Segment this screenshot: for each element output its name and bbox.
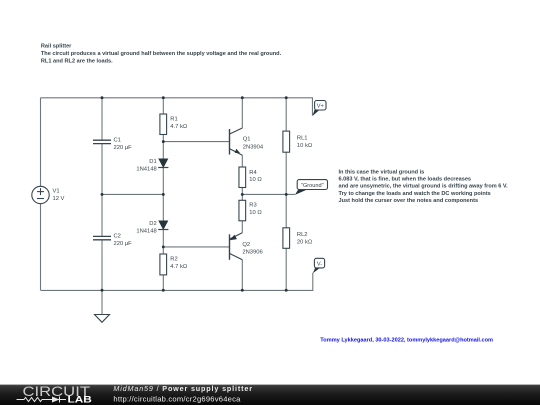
- footer logo zigzag and diode: [17, 397, 67, 403]
- wire left rail lower (V1 bottom lead): [40, 204, 42, 291]
- svg-text:20 kΩ: 20 kΩ: [297, 239, 313, 245]
- svg-text:The circuit produces a virtual: The circuit produces a virtual ground ha…: [41, 51, 282, 57]
- wire RL2 bottom lead: [285, 248, 287, 290]
- svg-text:10 Ω: 10 Ω: [249, 177, 262, 183]
- label R2 value: [170, 256, 188, 270]
- svg-text:Q2: Q2: [242, 242, 250, 248]
- wire to Ground flag: [242, 193, 295, 195]
- wire Q1 base: [163, 141, 229, 143]
- wire left rail upper (V1 top lead): [40, 98, 42, 187]
- note: title text block top-left: [41, 44, 282, 65]
- wire C branch bottom: [101, 240, 103, 290]
- wire top rail to V+: [41, 98, 313, 116]
- label R3 value: [249, 203, 262, 217]
- label R4 value: [249, 170, 262, 183]
- svg-text:220 µF: 220 µF: [114, 241, 133, 247]
- svg-text:Try to change the loads and wa: Try to change the loads and watch the DC…: [339, 191, 491, 197]
- wire R4 to R3: [241, 188, 243, 201]
- label D2 value: [136, 221, 156, 235]
- wire R1 top lead: [162, 98, 164, 114]
- wire RL1 to RL2: [285, 152, 287, 228]
- svg-text:12 V: 12 V: [53, 196, 65, 202]
- wire Q1 collector: [241, 98, 243, 128]
- svg-text:6.083 V, that is fine, but whe: 6.083 V, that is fine, but when the load…: [339, 177, 472, 183]
- svg-text:Just hold the curser over the: Just hold the curser over the notes and …: [339, 198, 479, 204]
- svg-text:4.7 kΩ: 4.7 kΩ: [170, 264, 188, 270]
- wire R1 to D1: [162, 135, 164, 159]
- svg-text:1N4148: 1N4148: [136, 228, 156, 234]
- wire R2 bottom lead: [162, 275, 164, 290]
- svg-text:D2: D2: [149, 221, 156, 227]
- svg-text:V1: V1: [53, 189, 60, 195]
- capacitor C1: [93, 140, 111, 143]
- label RL1 value: [297, 135, 313, 149]
- svg-text:V-: V-: [317, 261, 322, 267]
- node V+ flag: [312, 101, 326, 117]
- svg-text:http://circuitlab.com/cr2g696v: http://circuitlab.com/cr2g696v64eca: [113, 394, 241, 403]
- note: explanation text block right: [339, 169, 509, 204]
- svg-text:R3: R3: [249, 203, 256, 209]
- voltage source V1: [32, 186, 49, 203]
- node Ground flag: [295, 180, 328, 195]
- svg-text:Q1: Q1: [243, 137, 251, 143]
- label C2 value: [114, 234, 133, 248]
- svg-text:RL2: RL2: [297, 232, 308, 238]
- svg-text:2N3906: 2N3906: [242, 250, 262, 256]
- wire R3 to Q2: [241, 221, 243, 233]
- wire D1 to D2: [162, 168, 164, 221]
- transistor Q1: [230, 128, 243, 155]
- svg-text:RL1: RL1: [297, 135, 308, 141]
- diode D2: [158, 221, 168, 230]
- svg-text:1N4148: 1N4148: [136, 166, 156, 172]
- resistor R2: [160, 254, 167, 275]
- svg-text:Tommy Lykkegaard, 30-03-2022,: Tommy Lykkegaard, 30-03-2022, tommylykke…: [320, 337, 493, 343]
- svg-text:R2: R2: [170, 256, 177, 262]
- svg-text:In this case the virtual groun: In this case the virtual ground is: [339, 169, 425, 175]
- resistor RL1: [283, 131, 290, 152]
- svg-text:"Ground": "Ground": [301, 183, 324, 189]
- resistor R1: [160, 114, 167, 135]
- ground symbol: [95, 315, 110, 323]
- svg-text:220 µF: 220 µF: [114, 145, 133, 151]
- svg-text:Rail splitter: Rail splitter: [41, 44, 72, 50]
- wire Q2 collector to bottom: [241, 260, 243, 291]
- label Q1 value: [243, 137, 264, 151]
- svg-text:C1: C1: [114, 138, 121, 144]
- svg-text:and are unsymetric, the virtua: and are unsymetric, the virtual ground i…: [339, 184, 509, 190]
- label Q2 value: [242, 242, 262, 256]
- svg-text:R1: R1: [170, 117, 177, 123]
- label R1 value: [170, 117, 188, 131]
- transistor Q2: [230, 233, 243, 260]
- wire RL1 top lead: [285, 98, 287, 131]
- svg-text:R4: R4: [249, 170, 257, 176]
- svg-text:D1: D1: [149, 159, 156, 165]
- label C1 value: [114, 138, 133, 152]
- diode D1: [158, 159, 168, 168]
- capacitor C2: [93, 236, 111, 239]
- svg-text:MidMan59 / Power supply splitt: MidMan59 / Power supply splitter: [113, 384, 252, 393]
- wire C branch top: [101, 98, 103, 140]
- resistor R4: [239, 167, 246, 188]
- resistor R3: [239, 200, 246, 221]
- footer bar: [0, 385, 540, 405]
- svg-text:V+: V+: [317, 104, 324, 110]
- svg-text:C2: C2: [114, 234, 121, 240]
- wire D2 to R2: [162, 230, 164, 255]
- resistor RL2: [283, 228, 290, 249]
- svg-text:10 kΩ: 10 kΩ: [297, 143, 313, 149]
- svg-text:10 Ω: 10 Ω: [249, 210, 262, 216]
- wire mid left (C to D): [102, 193, 163, 195]
- label RL2 value: [297, 232, 313, 245]
- wire ground stub: [101, 290, 103, 314]
- wire bottom rail to V-: [41, 273, 313, 291]
- label V1 value: [53, 189, 65, 203]
- svg-text:4.7 kΩ: 4.7 kΩ: [170, 124, 188, 130]
- label D1 value: [136, 159, 156, 173]
- svg-text:RL1 and RL2 are the loads.: RL1 and RL2 are the loads.: [41, 59, 113, 65]
- svg-text:LAB: LAB: [68, 394, 93, 404]
- wire Q2 base: [163, 246, 229, 248]
- junction dots: [101, 96, 288, 291]
- node V- flag: [313, 258, 325, 273]
- wire C branch middle: [101, 144, 103, 236]
- wire Q1 emitter to R4: [241, 155, 243, 167]
- footer logo diode triangle: [52, 397, 60, 403]
- svg-text:2N3904: 2N3904: [243, 144, 264, 150]
